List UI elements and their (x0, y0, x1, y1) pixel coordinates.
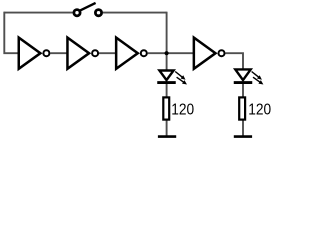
wire node A down to LED D1 (166, 53, 168, 70)
wire U4 out to LED D2 (225, 53, 243, 69)
inverter U3 (116, 38, 147, 69)
LED D1 (157, 71, 187, 85)
svg-text:120: 120 (171, 102, 194, 119)
ground (R1) (158, 135, 176, 138)
switch S1 (74, 3, 102, 16)
wire feedback down to node (166, 12, 168, 54)
wire top feedback right segment (103, 12, 167, 14)
svg-text:120: 120 (248, 102, 271, 119)
wire U1 out to U2 in (50, 52, 67, 54)
wire U3 out through node A to U4 in (148, 52, 194, 54)
inverter U1 (19, 38, 50, 69)
wire resistor R2 to ground (242, 120, 244, 136)
wire LED D2 to resistor R2 (242, 83, 244, 97)
wire LED D1 to resistor R1 (166, 83, 168, 97)
wire U2 out to U3 in (99, 52, 116, 54)
wire resistor R1 to ground (166, 120, 168, 136)
inverter U4 (194, 38, 225, 69)
resistor R1 (163, 97, 169, 119)
inverter U2 (67, 38, 98, 69)
node A junction (165, 51, 169, 55)
LED D2 (234, 69, 264, 84)
wire top feedback left segment (4, 12, 73, 14)
ground (R2) (234, 135, 252, 138)
resistor R2 (239, 97, 245, 119)
wire left rail down (4, 12, 18, 54)
